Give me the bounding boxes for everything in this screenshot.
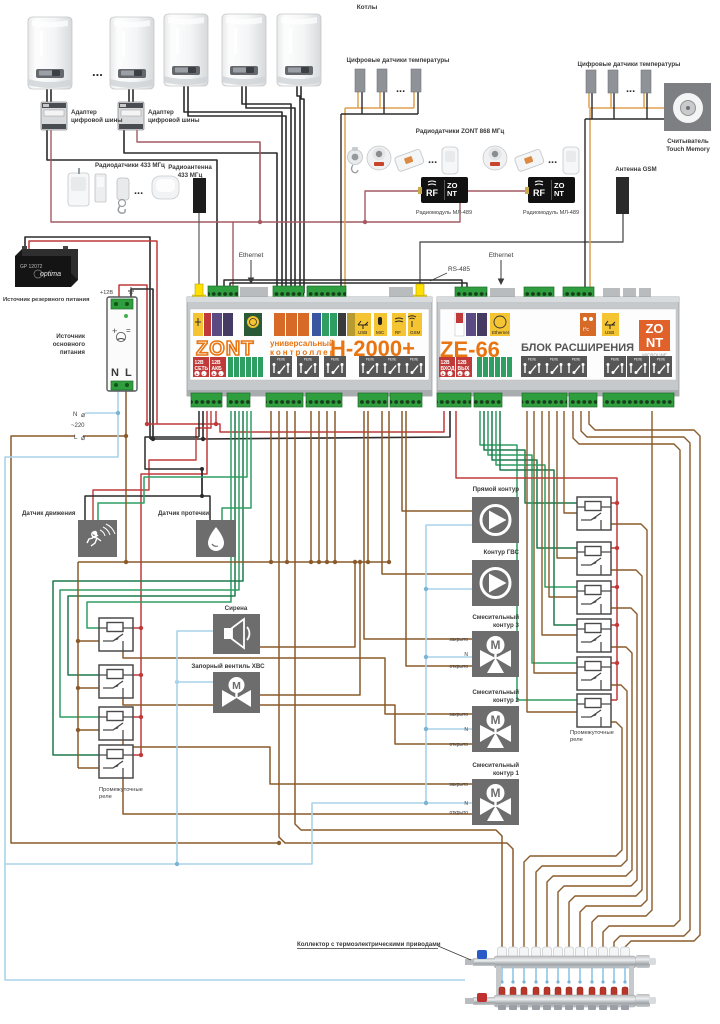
radio sensor 868 keyfob <box>348 147 363 173</box>
svg-text:Считыватель: Считыватель <box>667 138 709 145</box>
left relay 1 <box>99 618 133 651</box>
wire adapter2 black down right to bus <box>124 130 277 293</box>
svg-text:цифровой шины: цифровой шины <box>148 117 200 124</box>
wire adapter2 red <box>137 130 260 222</box>
svg-text:закрыто: закрыто <box>449 637 468 643</box>
svg-text:N: N <box>73 412 77 418</box>
svg-text:+12В: +12В <box>100 290 113 296</box>
svg-text:RF: RF <box>426 188 438 198</box>
wire gsm antenna to sma2 <box>420 213 623 284</box>
svg-text:+: + <box>212 372 215 378</box>
svg-text:Радиомодуль МЛ-489: Радиомодуль МЛ-489 <box>416 210 472 216</box>
wire 433 antenna to sma1 <box>198 212 200 284</box>
svg-text:Адаптер: Адаптер <box>71 109 97 116</box>
wire boiler1 to adapter1 <box>47 89 51 102</box>
thermo actuators <box>498 947 630 967</box>
svg-text:Ethernet: Ethernet <box>239 252 264 259</box>
radio sensor 433: motion <box>68 168 89 206</box>
wire brown feed left relays <box>78 562 99 768</box>
bottom power labels <box>439 357 455 377</box>
wire red stubs left relays <box>133 628 141 755</box>
leak sensor box <box>196 520 236 557</box>
wire boiler5 down to controller bus <box>297 86 300 293</box>
wire ZE66 T5 browns to collector <box>592 411 652 947</box>
wire boiler4 down to controller bus <box>242 86 291 293</box>
svg-text:Прямой контур: Прямой контур <box>473 486 520 493</box>
wire psu gnd black <box>131 289 153 439</box>
svg-text:Адаптер: Адаптер <box>148 109 174 116</box>
svg-text:закрыто: закрыто <box>449 712 468 718</box>
radio sensor 433: keyfob <box>117 178 129 213</box>
right cap top <box>636 955 650 968</box>
svg-text:N: N <box>111 367 119 379</box>
wire boiler2 to adapter2 <box>129 89 133 102</box>
wire left relay outputs to valves <box>123 651 472 714</box>
radio sensor 433: door contact <box>95 174 106 202</box>
boiler 2 <box>110 17 154 89</box>
pump DHW circuit <box>472 560 519 606</box>
top manifold bar <box>494 956 636 968</box>
wire 12V red bus to ZE66 <box>147 411 444 432</box>
body <box>437 297 679 396</box>
radio sensors 868 group 1: smoke <box>367 146 391 170</box>
svg-text:реле: реле <box>570 737 583 743</box>
wire brown L bus from psu <box>83 391 126 436</box>
wire adapter1 black down right to terminal <box>47 130 217 293</box>
right relay 6 <box>577 694 611 727</box>
svg-text:+: + <box>195 372 198 378</box>
wire green to motion sensor <box>98 411 247 520</box>
mixing valve 1 <box>472 779 519 825</box>
right relay 1 <box>577 497 611 530</box>
left ball valve top <box>473 958 495 966</box>
svg-text:Источник: Источник <box>56 333 86 340</box>
svg-text:t°c: t°c <box>583 327 589 333</box>
svg-text:универсальный: универсальный <box>270 339 334 348</box>
wire red loop to left relay bus <box>141 411 207 755</box>
side struts <box>496 966 501 997</box>
svg-text:N: N <box>464 727 468 733</box>
battery backup <box>15 246 78 287</box>
svg-text:...: ... <box>428 154 437 166</box>
blue drop tubes <box>502 967 625 982</box>
flow meters <box>499 987 628 1000</box>
svg-text:Промежуточные: Промежуточные <box>99 787 143 793</box>
svg-text:Сирена: Сирена <box>225 605 248 612</box>
svg-text:+: + <box>458 372 461 378</box>
wire rf-module maroon bus to terminal <box>233 142 528 293</box>
top terminal row <box>455 287 487 300</box>
shutoff valve HVS box <box>213 672 260 713</box>
wire brown T_C to collector left <box>271 411 513 947</box>
relay cells H-2000 <box>270 356 292 377</box>
svg-text:основного: основного <box>53 341 85 348</box>
right relay 4 <box>577 619 611 652</box>
svg-text:контур 2: контур 2 <box>493 697 520 704</box>
right relay 2 <box>577 542 611 575</box>
wire ZE66 brown inputs right relays <box>527 411 577 712</box>
svg-text:открыто: открыто <box>449 742 468 748</box>
svg-text:+: + <box>441 372 444 378</box>
wire green out1 to relay1 <box>87 411 231 628</box>
svg-text:NT: NT <box>554 189 564 198</box>
svg-text:N: N <box>464 652 468 658</box>
wire temp-sensors-1 black bus <box>341 92 418 293</box>
svg-text:ZONT: ZONT <box>196 338 254 360</box>
wire temp-sensors-2 orange bus to ZE66 <box>589 93 688 293</box>
svg-text:контур 1: контур 1 <box>493 770 520 777</box>
svg-text:RF: RF <box>533 188 545 198</box>
svg-text:NT: NT <box>646 335 663 350</box>
svg-text:Промежуточные: Промежуточные <box>570 730 614 736</box>
bottom terminal row <box>437 393 471 407</box>
wire brown 220 bus horizontal <box>11 436 389 843</box>
radio sensors 868 group 2: leak <box>514 149 545 172</box>
svg-text:USB: USB <box>605 330 614 335</box>
svg-text:Коллектор с термоэлектрическим: Коллектор с термоэлектрическими приводам… <box>297 941 441 948</box>
svg-text:БЛОК РАСШИРЕНИЯ: БЛОК РАСШИРЕНИЯ <box>521 342 634 354</box>
svg-text:=: = <box>126 326 131 335</box>
svg-text:MIC: MIC <box>376 330 385 335</box>
wire red branch to motion sensor <box>93 411 211 520</box>
svg-text:питания: питания <box>60 349 86 356</box>
svg-text:...: ... <box>548 154 557 166</box>
boiler 5 <box>277 14 321 86</box>
wire green out3 to relay3 <box>60 411 239 717</box>
right relay 3 <box>577 581 611 614</box>
svg-text:Touch Memory: Touch Memory <box>666 146 710 153</box>
digital temp sensors group 2 <box>586 70 596 93</box>
face icons <box>455 313 464 336</box>
collector with thermo actuators <box>465 947 656 1010</box>
wire blue N bus <box>5 299 472 980</box>
svg-text:GP 12072: GP 12072 <box>20 264 43 270</box>
svg-text:optima: optima <box>40 271 61 278</box>
svg-text:контроллер: контроллер <box>270 348 337 357</box>
svg-text:Цифровые датчики температуры: Цифровые датчики температуры <box>578 61 681 68</box>
svg-text:+: + <box>112 326 117 336</box>
wire ZE66 green outputs to right relays <box>480 411 577 700</box>
svg-text:закрыто: закрыто <box>449 782 468 788</box>
radio module ML-489 #1 <box>418 177 468 203</box>
svg-text:USB: USB <box>358 330 367 335</box>
svg-text:433 МГц: 433 МГц <box>178 172 203 179</box>
pump direct circuit <box>472 497 519 543</box>
radio sensors 868 group 1: leak <box>394 149 425 172</box>
svg-text:ZO: ZO <box>645 321 663 336</box>
ZONT microline logo <box>639 320 670 351</box>
wire brown valve3 closed feed <box>364 411 472 639</box>
wire green out4 to relay4 <box>53 411 243 755</box>
relay cells ZE-66 <box>521 356 543 377</box>
wire psu +12 red <box>119 285 147 424</box>
svg-text:Контур ГВС: Контур ГВС <box>483 549 519 556</box>
boiler 1 <box>28 17 72 89</box>
wire rs-485 pair H2000 to ZE66 <box>224 280 467 291</box>
wire boiler3 down to controller bus <box>184 86 282 293</box>
svg-text:Радиоантенна: Радиоантенна <box>168 164 212 171</box>
left ball valve bottom <box>473 997 495 1005</box>
svg-text:Антенна GSM: Антенна GSM <box>615 166 656 173</box>
body <box>187 297 432 396</box>
wire temp-sensors-1 orange bus down to controller <box>345 92 414 293</box>
bottom manifold bar <box>494 995 636 1007</box>
gsm antenna <box>616 177 629 214</box>
touch memory reader <box>664 83 711 131</box>
motion sensor box <box>78 520 117 557</box>
svg-text:реле: реле <box>99 794 112 800</box>
psu main power <box>107 297 137 391</box>
wire siren brown from bus <box>260 562 355 647</box>
wire adapter1 red <box>51 130 233 222</box>
wire green out2 to relay2 <box>68 411 235 675</box>
wire ZE66 T4 browns long <box>573 411 680 947</box>
svg-text:Смесительный: Смесительный <box>472 614 519 621</box>
radio sensors 868 group 2: motion <box>563 147 579 174</box>
wire brown valve3 open feed <box>368 411 472 666</box>
wire black loop to leak sensor <box>145 411 210 520</box>
mixing valve 3 <box>472 631 519 677</box>
wire brown pump1 feed <box>402 411 472 511</box>
svg-text:NT: NT <box>447 189 457 198</box>
svg-text:...: ... <box>396 83 405 95</box>
wire brown pump2 feed <box>382 411 472 574</box>
left relay 2 <box>99 665 133 698</box>
svg-text:...: ... <box>626 83 635 95</box>
svg-text:RS-485: RS-485 <box>448 266 470 273</box>
svg-text:Смесительный: Смесительный <box>472 689 519 696</box>
wire hvs valve brown <box>260 562 360 695</box>
boiler 4 <box>222 14 266 86</box>
svg-text:M: M <box>232 680 241 692</box>
svg-text:Радиомодуль МЛ-489: Радиомодуль МЛ-489 <box>523 210 579 216</box>
svg-text:Цифровые датчики температуры: Цифровые датчики температуры <box>347 57 450 64</box>
svg-text:Датчик протечки: Датчик протечки <box>158 510 209 517</box>
svg-text:Запорный вентиль ХВС: Запорный вентиль ХВС <box>191 663 265 670</box>
wire hvs valve blue <box>177 681 213 683</box>
svg-text:Ethernet: Ethernet <box>492 330 510 335</box>
top terminal row <box>193 284 206 300</box>
mixing valve 2 <box>472 706 519 752</box>
svg-text:цифровой шины: цифровой шины <box>71 117 123 124</box>
svg-text:...: ... <box>92 64 103 79</box>
svg-text:открыто: открыто <box>449 810 468 816</box>
svg-text:контур 3: контур 3 <box>493 622 520 629</box>
svg-text:Радиодатчики ZONT 868 МГц: Радиодатчики ZONT 868 МГц <box>416 128 505 135</box>
svg-text:открыто: открыто <box>449 664 468 670</box>
wire battery red to 12V bus <box>29 241 157 424</box>
radio antenna 433 <box>193 178 206 213</box>
bottom row: power labels <box>193 357 209 377</box>
wire green to leak sensor <box>222 411 251 520</box>
wire 12V black bus to ZE66 <box>150 411 450 439</box>
svg-text:GSM: GSM <box>410 330 421 335</box>
right relay 5 <box>577 657 611 690</box>
svg-text:L: L <box>74 435 78 441</box>
wire right relay outputs to collector <box>580 524 647 947</box>
svg-text:Радиодатчики 433 МГц: Радиодатчики 433 МГц <box>95 162 165 169</box>
digital temp sensors group 1 <box>355 69 365 92</box>
svg-text:⌀: ⌀ <box>81 412 85 419</box>
boiler 3 <box>164 14 208 86</box>
radio sensor 433: round <box>152 176 179 199</box>
wire brown T_D to bus <box>311 411 335 562</box>
bottom terminal row <box>191 393 222 407</box>
wire temp-sensors-2 black bus to ZE66 <box>585 93 688 293</box>
wire ZE66 red bus to right relays <box>456 411 617 700</box>
wire battery black to 12V bus <box>25 237 150 439</box>
right cap bottom <box>636 994 650 1007</box>
wire black branch to motion sensor <box>85 469 202 520</box>
svg-text:Котлы: Котлы <box>357 4 378 11</box>
svg-text:Датчик движения: Датчик движения <box>22 510 76 517</box>
radio module ML-489 #2 <box>525 177 575 203</box>
svg-text:Смесительный: Смесительный <box>472 762 519 769</box>
svg-text:L: L <box>125 367 132 379</box>
svg-text:...: ... <box>134 185 143 197</box>
svg-text:RF: RF <box>395 330 401 335</box>
svg-text:N: N <box>464 801 468 807</box>
svg-text:Источник резервного питания: Источник резервного питания <box>3 297 90 303</box>
svg-text:Ethernet: Ethernet <box>489 252 514 259</box>
radio sensors 868 group 1: motion <box>442 147 458 174</box>
wire siren blue <box>177 631 213 864</box>
face icons top row <box>193 313 203 336</box>
radio sensors 868 group 2: smoke <box>483 146 507 170</box>
left relay 4 <box>99 745 133 778</box>
left relay 3 <box>99 707 133 740</box>
svg-text:⌀: ⌀ <box>81 435 85 442</box>
adapter 2 (bus adapter) <box>118 102 144 130</box>
siren box <box>213 614 260 654</box>
wire brown T_C2 <box>287 411 502 947</box>
svg-text:~220: ~220 <box>71 423 85 429</box>
adapter 1 (bus adapter) <box>41 102 67 130</box>
